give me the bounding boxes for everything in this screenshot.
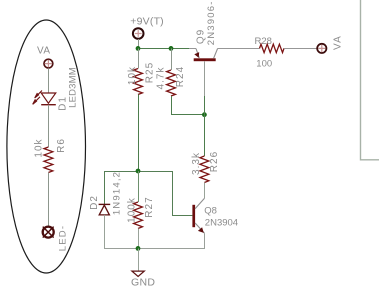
- svg-text:VA: VA: [332, 35, 343, 50]
- junction rail at R24: [169, 46, 174, 51]
- svg-text:R26: R26: [209, 151, 220, 172]
- wire supply pin to rail: [138, 39, 140, 49]
- svg-text:R25: R25: [145, 62, 156, 83]
- svg-text:Q9: Q9: [196, 29, 207, 44]
- junction Q9 base / R26: [202, 112, 207, 117]
- svg-text:10k: 10k: [34, 138, 45, 157]
- wire Q9 collector to R28: [218, 48, 260, 50]
- node VA (right) circle: [317, 44, 326, 53]
- wire R25 to junction: [138, 95, 140, 172]
- resistor R26: [200, 156, 209, 183]
- wire right edge net: [361, 0, 379, 160]
- svg-text:100: 100: [256, 59, 272, 70]
- svg-text:2N3906-: 2N3906-: [206, 0, 217, 45]
- svg-text:10k: 10k: [127, 66, 138, 85]
- junction GND: [136, 246, 141, 251]
- svg-text:D2: D2: [89, 195, 100, 210]
- svg-text:Q8: Q8: [204, 205, 217, 216]
- wire R27 to bottom rail: [138, 229, 140, 249]
- svg-text:LED-: LED-: [58, 225, 69, 251]
- wire rail to R24: [171, 49, 173, 71]
- wire R24 down: [171, 96, 173, 115]
- svg-text:LED3MM: LED3MM: [68, 67, 79, 108]
- wire junction to R27: [138, 171, 140, 202]
- supply +9V(T) circle: [133, 28, 144, 39]
- junction R27 top: [136, 169, 141, 174]
- svg-text:2N3904: 2N3904: [205, 217, 238, 228]
- svg-text:3.3k: 3.3k: [191, 152, 202, 175]
- svg-text:VA: VA: [37, 46, 51, 57]
- resistor R28: [260, 44, 285, 52]
- wire rail to R25: [138, 49, 140, 69]
- svg-text:R24: R24: [175, 66, 186, 87]
- resistor R24: [167, 70, 176, 96]
- wire junction to R26: [204, 115, 206, 157]
- svg-text:R27: R27: [144, 196, 155, 217]
- wire +9V rail: [138, 48, 196, 50]
- LED D1 emission arrows: [33, 91, 42, 105]
- highlight ellipse around LED branch: [7, 20, 86, 273]
- wire top loop D2/R27: [105, 172, 193, 216]
- junction rail at R25: [136, 46, 141, 51]
- wire R28 to VA node: [284, 48, 317, 50]
- svg-text:GND: GND: [131, 277, 155, 286]
- node VA (left) supply circle: [44, 59, 53, 68]
- wire GND stub: [138, 249, 140, 272]
- svg-text:R28: R28: [255, 36, 272, 47]
- svg-text:+9V(T): +9V(T): [130, 16, 164, 28]
- wire R6 to LED- node: [48, 173, 50, 227]
- wire R24 to Q9 base junction: [171, 114, 205, 116]
- wire bottom rail: [104, 248, 205, 250]
- ground symbol: [132, 271, 144, 276]
- diode D2 1N914: [99, 204, 111, 215]
- node LED- circle with X: [43, 227, 54, 238]
- LED D1: [41, 93, 56, 105]
- resistor R25: [134, 69, 143, 95]
- wire LED D1 cathode to R6: [48, 105, 50, 147]
- svg-text:1N914,2: 1N914,2: [111, 171, 122, 215]
- transistor Q9 2N3906: [189, 49, 218, 115]
- resistor R27: [134, 202, 143, 229]
- resistor R6: [44, 147, 53, 173]
- wire R26 to Q8 collector: [204, 183, 206, 199]
- svg-text:4.7k: 4.7k: [156, 67, 167, 90]
- svg-text:R6: R6: [56, 138, 67, 153]
- wire D2 to bottom rail: [104, 215, 106, 249]
- wire VA node to LED D1 anode: [48, 68, 50, 93]
- svg-text:100k: 100k: [126, 197, 137, 223]
- transistor Q8 2N3904: [192, 198, 204, 249]
